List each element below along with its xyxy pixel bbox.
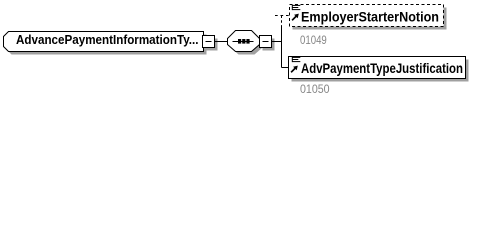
sequence dot 2 [242, 39, 245, 44]
expand/collapse minus box 2 [260, 36, 272, 48]
shadow of element box EmployerStarterNotion [293, 8, 447, 30]
element box EmployerStarterNotion (optional, dashed) [290, 5, 444, 27]
wire dashed to EmployerStarterNotion [275, 15, 290, 17]
minus sign 1 [206, 41, 212, 43]
branch vertical dashed (optional child half) [281, 16, 283, 28]
minus sign 2 [263, 41, 269, 43]
shadow of sequence octagon [231, 34, 263, 55]
shadow of expand box 1 [206, 39, 218, 51]
svg-text:01050: 01050 [300, 82, 330, 96]
icon arrow (AdvPaymentTypeJustification) [291, 66, 298, 73]
svg-text:01049: 01049 [300, 33, 327, 47]
shadow of expand box 2 [263, 39, 275, 51]
icon arrow (EmployerStarterNotion) [292, 14, 299, 21]
branch vertical solid [281, 28, 283, 68]
sequence line [233, 41, 254, 43]
sequence compositor octagon [228, 31, 260, 52]
svg-text:AdvancePaymentInformationTy...: AdvancePaymentInformationTy... [16, 32, 199, 47]
wire sequence to branch [272, 41, 282, 43]
wire complexType to sequence [215, 41, 228, 43]
expand/collapse minus box 1 [203, 36, 215, 48]
complexType box AdvancePaymentInformationType [4, 32, 204, 52]
svg-text:EmployerStarterNotion: EmployerStarterNotion [301, 8, 439, 24]
shadow of element box AdvPaymentTypeJustification [292, 60, 469, 82]
shadow of complexType box [7, 35, 207, 55]
icon content lines (EmployerStarterNotion) [292, 5, 300, 10]
element box AdvPaymentTypeJustification (required, solid) [289, 57, 466, 79]
svg-text:AdvPaymentTypeJustification: AdvPaymentTypeJustification [301, 60, 463, 76]
sequence dot 3 [246, 39, 249, 44]
wire solid to AdvPaymentTypeJustification [282, 67, 290, 69]
sequence dot 1 [238, 39, 241, 44]
icon content lines (AdvPaymentTypeJustification) [292, 57, 300, 62]
